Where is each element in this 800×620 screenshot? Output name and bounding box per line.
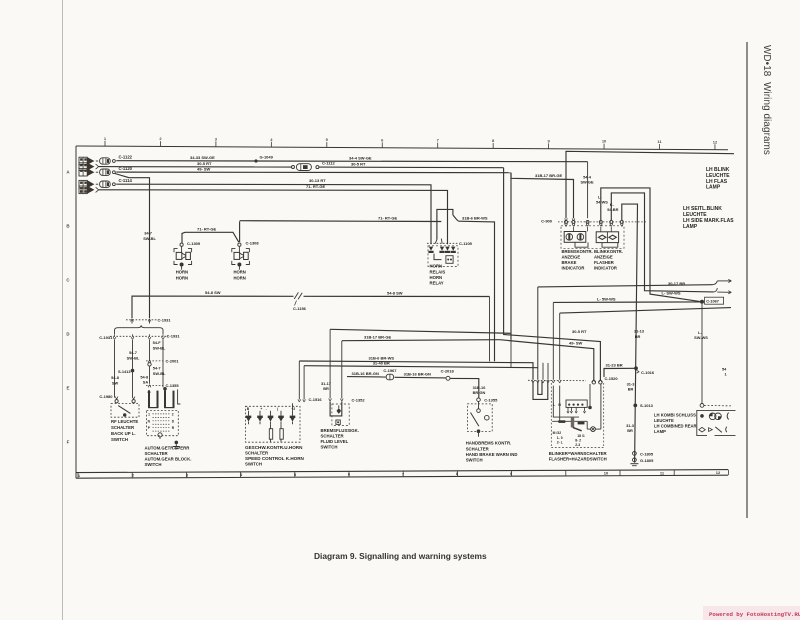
connector C-1931 lower row: [99, 334, 180, 340]
svg-text:SCHALTER: SCHALTER: [111, 425, 135, 430]
svg-text:AUTOM.GETR.SPERR: AUTOM.GETR.SPERR: [145, 445, 191, 450]
page divider rule: [746, 42, 748, 518]
svg-text:31B-17 BR-GE: 31B-17 BR-GE: [535, 173, 562, 178]
horn 1: [174, 246, 192, 280]
connector C-2018: [441, 369, 479, 398]
wire L- SW-WS down to rear lamp: [694, 304, 708, 404]
speed control and horn switch box: [246, 403, 301, 442]
svg-text:71- RT-GE: 71- RT-GE: [197, 227, 216, 232]
connector to rear lamp: [700, 404, 731, 408]
svg-text:BRAKE: BRAKE: [562, 260, 577, 265]
horn relay text label: [430, 264, 446, 286]
horn relay coil loop: [435, 209, 458, 243]
brake indicator text label: [562, 249, 593, 270]
svg-text:5: 5: [326, 137, 329, 142]
svg-text:INDICATOR: INDICATOR: [562, 265, 585, 270]
horn relay body: [428, 246, 458, 267]
fluid level switch: [330, 402, 349, 426]
svg-text:49- SW: 49- SW: [197, 166, 211, 171]
svg-text:D: D: [66, 332, 69, 337]
flasher switch left loops: [533, 381, 548, 399]
connector C-1520: [592, 376, 618, 384]
svg-text:C-1122: C-1122: [119, 155, 133, 160]
svg-text:+: +: [260, 407, 262, 411]
svg-text:SCHALTER: SCHALTER: [245, 450, 269, 455]
svg-text:SWITCH: SWITCH: [245, 462, 262, 467]
svg-text:BLINKER=WARNSCHALTER: BLINKER=WARNSCHALTER: [549, 451, 608, 456]
svg-text:RELAIS: RELAIS: [430, 269, 446, 274]
wire 31B-6 BR-WS lower run: [299, 355, 533, 379]
svg-text:9: 9: [510, 471, 513, 476]
svg-text:C-1931: C-1931: [167, 334, 181, 339]
in-line connector C-1156 break: [293, 292, 307, 311]
svg-text:RF LEUCHTE: RF LEUCHTE: [111, 419, 138, 424]
svg-text:LAMP: LAMP: [706, 185, 721, 191]
connector C-1516: [298, 361, 322, 402]
svg-text:2: 2: [159, 136, 162, 141]
svg-text:FLUID LEVEL: FLUID LEVEL: [321, 439, 349, 444]
wire 49- SW (row 3): [116, 166, 511, 172]
svg-text:34-7: 34-7: [144, 230, 152, 235]
svg-text:RELAY: RELAY: [430, 281, 444, 286]
bottom ruler bar: [76, 470, 728, 479]
svg-text:G-1805: G-1805: [640, 458, 654, 463]
svg-text:LEUCHTE: LEUCHTE: [654, 418, 674, 423]
svg-text:SWITCH: SWITCH: [321, 445, 338, 450]
wire 30-5 RT drop and run to flasher switch: [504, 168, 601, 380]
svg-text:BACK UP L.: BACK UP L.: [111, 431, 136, 436]
svg-text:FLASHER=HAZARDSWITCH: FLASHER=HAZARDSWITCH: [549, 457, 607, 462]
wire 31-40 BR run: [304, 360, 538, 367]
svg-text:-: -: [266, 407, 267, 411]
splice S-1013: [633, 403, 653, 408]
connector plug row B-2: [79, 186, 99, 194]
flasher indicator text label: [594, 249, 623, 270]
svg-text:C-1308: C-1308: [246, 241, 260, 246]
svg-text:8: 8: [492, 138, 495, 143]
svg-text:2-3: 2-3: [575, 443, 580, 447]
svg-text:6: 6: [348, 472, 351, 477]
watermark Powered by FotoHostingTV.RU: [703, 606, 800, 620]
svg-text:BR: BR: [635, 334, 641, 339]
svg-text:HORN: HORN: [430, 264, 443, 269]
svg-text:M /32: M /32: [553, 431, 562, 435]
svg-text:54-7: 54-7: [129, 350, 137, 355]
connector C-1355 handbrake: [477, 398, 498, 413]
svg-text:49- SW: 49- SW: [569, 341, 583, 346]
svg-text:B: B: [66, 224, 69, 229]
top ruler scale numbers 1-12: [104, 136, 718, 150]
wire 30-17 BR to rear lamp connectors: [538, 281, 713, 380]
wire 54 label at page edge: [722, 366, 728, 376]
back-up light switch: [111, 400, 139, 418]
svg-text:C-1105: C-1105: [459, 241, 473, 246]
svg-text:SW-BL: SW-BL: [153, 345, 166, 350]
LH side marker lamp text: [683, 206, 734, 230]
svg-text:+2: +2: [291, 407, 295, 411]
svg-text:SCHALTER: SCHALTER: [321, 433, 345, 438]
svg-text:30-13 RT: 30-13 RT: [309, 178, 326, 183]
connector C-1309: [180, 241, 201, 246]
svg-text:N: N: [148, 419, 151, 423]
svg-text:C-1355: C-1355: [166, 383, 180, 388]
svg-text:C: C: [66, 278, 70, 283]
svg-text:S-1413: S-1413: [118, 369, 131, 374]
svg-text:54-7: 54-7: [153, 366, 161, 371]
gear switch ground: [173, 441, 180, 449]
svg-text:C-900: C-900: [541, 218, 553, 223]
rear lamp text label: [654, 412, 697, 434]
wire 54-4 SW-GE drop: [580, 162, 594, 219]
svg-text:C-1067: C-1067: [706, 299, 719, 304]
handbrake switch text label: [466, 441, 518, 463]
svg-text:6: 6: [381, 137, 384, 142]
svg-text:C-1352: C-1352: [352, 397, 366, 402]
brake indicator lamps: [564, 232, 588, 248]
wire L- SW-WS loop from indicator: [601, 188, 700, 302]
svg-text:10: 10: [604, 471, 609, 476]
fluid level switch text label: [321, 428, 359, 450]
svg-text:BREMSFLUSSIGK.: BREMSFLUSSIGK.: [321, 428, 359, 433]
svg-text:C-1355: C-1355: [484, 398, 498, 403]
flasher switch pin row: [528, 380, 586, 383]
svg-text:C-1931: C-1931: [99, 335, 113, 340]
svg-text:7: 7: [437, 138, 440, 143]
svg-text:G-1049: G-1049: [260, 155, 274, 160]
wire 34-33 SW-GE / 34-4 SW-GE (row 1): [116, 155, 587, 162]
svg-text:BREMSKONTR.: BREMSKONTR.: [562, 249, 593, 254]
svg-text:SW-BL: SW-BL: [143, 236, 156, 241]
svg-text:C-1156: C-1156: [293, 306, 307, 311]
svg-text:54-8 SW: 54-8 SW: [205, 290, 221, 295]
row letters A-F on left margin: [66, 170, 70, 445]
wire 71- RT-GE horn feed: [240, 215, 442, 221]
automatic gear block switch contacts: [148, 389, 181, 407]
svg-text:ANZEIGE: ANZEIGE: [594, 254, 613, 259]
svg-text:2- L: 2- L: [557, 441, 563, 445]
connector C-1355 gear switch: [146, 383, 179, 388]
speed control switch text label: [245, 445, 305, 467]
connector C-1122 (battery feed plug, row A): [79, 155, 133, 165]
svg-text:SWITCH: SWITCH: [466, 458, 483, 463]
svg-text:C-1016: C-1016: [641, 370, 655, 375]
svg-text:LH KOMBI SCHLUSS: LH KOMBI SCHLUSS: [654, 412, 696, 417]
wire K- loop from indicator to brace: [611, 193, 713, 292]
svg-text:P: P: [148, 426, 151, 430]
svg-text:C-1931: C-1931: [158, 318, 172, 323]
svg-text:C-1520: C-1520: [605, 376, 619, 381]
connector C-1931 upper row: [126, 318, 171, 324]
svg-text:F: F: [67, 440, 70, 445]
diagram border frame: [76, 146, 728, 478]
wire to page edge right: [560, 308, 731, 380]
gear block switch position ladder: [147, 411, 179, 440]
flasher-hazard switch body: [551, 383, 603, 448]
wire 31-3 BR labels lower: [626, 423, 635, 433]
svg-text:HORN: HORN: [176, 270, 188, 275]
connector C-900: [541, 218, 647, 226]
svg-text:HANDBREMS KONTR.: HANDBREMS KONTR.: [466, 441, 512, 446]
svg-text:3: 3: [215, 136, 218, 141]
svg-text:INDICATOR: INDICATOR: [594, 265, 617, 270]
wire 31B-16 BR-GN label at drop: [473, 385, 487, 395]
svg-text:SPEED CONTROL K.HORN: SPEED CONTROL K.HORN: [245, 456, 305, 461]
wire 31-17 BR drop: [321, 329, 331, 401]
svg-text:12: 12: [713, 139, 718, 144]
svg-text:LAMP: LAMP: [683, 224, 698, 230]
brace split under C-1931: [115, 325, 164, 334]
wire 31B-16 BR-GN with connector C-1967: [347, 368, 446, 380]
svg-text:S-1013: S-1013: [640, 403, 654, 408]
svg-text:C-1967: C-1967: [383, 368, 397, 373]
svg-text:SW-WS: SW-WS: [694, 335, 708, 340]
svg-text:31-40 BR: 31-40 BR: [373, 360, 390, 365]
svg-text:7: 7: [402, 471, 405, 476]
feed wires into flasher switch pins: [511, 340, 548, 380]
connector C-1114: [79, 178, 132, 188]
wire L- 5W-WS to junction: [553, 296, 700, 379]
svg-text:L- 5W-WS: L- 5W-WS: [597, 296, 616, 301]
svg-text:(: (: [277, 407, 279, 411]
svg-text:A: A: [66, 170, 70, 175]
svg-text:ANZEIGE: ANZEIGE: [562, 254, 581, 259]
svg-text:AUTOM.GEAR BLOCK.: AUTOM.GEAR BLOCK.: [145, 457, 192, 462]
svg-text:30-17 BR: 30-17 BR: [668, 281, 685, 286]
connector plug row A-2: [79, 163, 99, 171]
svg-text:4: 4: [270, 137, 273, 142]
svg-text:C-1805: C-1805: [640, 451, 654, 456]
wire into gear switch: [163, 340, 167, 391]
svg-text:10: 10: [602, 139, 607, 144]
scan fold line at left: [62, 0, 63, 620]
connector C-1805: [633, 451, 654, 456]
svg-text:LH COMBINED REAR: LH COMBINED REAR: [654, 423, 697, 428]
splice and connector C-1016: [634, 366, 655, 375]
wire 31-13 BR label: [634, 329, 645, 339]
in-line connector C-1112: [292, 160, 336, 170]
svg-text:BR-GN: BR-GN: [473, 390, 486, 395]
svg-text:34-33 SW-GE: 34-33 SW-GE: [190, 155, 215, 160]
wire 54-7 SW-BL left branch: [111, 340, 120, 398]
svg-text:HORN: HORN: [234, 270, 246, 275]
LH combined rear lamp: [697, 410, 736, 435]
svg-text:54-WS: 54-WS: [596, 200, 608, 205]
caption Diagram 9: [314, 551, 487, 561]
svg-text:SCHALTER: SCHALTER: [145, 451, 169, 456]
svg-text:1: 1: [78, 473, 81, 478]
wire 30-5 RT continuation to drop: [319, 161, 504, 167]
svg-text:1- 0: 1- 0: [557, 436, 563, 440]
svg-text:SA: SA: [143, 379, 149, 384]
svg-text:C-2018: C-2018: [441, 369, 455, 374]
wire 54-7 SW-BL drop label: [143, 230, 156, 241]
svg-text:1: 1: [104, 136, 107, 141]
wire L- 54-WS label: [596, 194, 608, 204]
svg-text:3: 3: [186, 472, 189, 477]
svg-text:C-2001: C-2001: [166, 358, 180, 363]
svg-text:54-BR: 54-BR: [607, 207, 618, 212]
ground G-1805: [630, 458, 654, 466]
wire 31-3 BR labels upper: [627, 381, 636, 391]
svg-text:1: 1: [148, 412, 150, 416]
wire 31B-6 BR-WS from relay: [458, 216, 494, 362]
svg-text:BLINKKONTR.: BLINKKONTR.: [594, 249, 623, 254]
connector C-2001: [140, 358, 179, 384]
svg-text:30-5 RT: 30-5 RT: [572, 329, 587, 334]
svg-text:B: B: [247, 407, 250, 411]
svg-text:R: R: [172, 426, 175, 430]
svg-text:31B-16 BR-GN: 31B-16 BR-GN: [404, 372, 431, 377]
svg-text:31-23 BR: 31-23 BR: [606, 363, 623, 368]
svg-text:30-5 RT: 30-5 RT: [351, 161, 366, 166]
svg-text:1: 1: [725, 372, 728, 377]
svg-text:C-1516: C-1516: [309, 397, 323, 402]
connector C-1105 relay pins: [427, 241, 473, 253]
splice junction at C-1067: [700, 297, 724, 304]
svg-text:BR: BR: [323, 386, 329, 391]
svg-text:18 /1: 18 /1: [577, 434, 585, 438]
wire 30-5 RT (row 2): [99, 161, 292, 167]
svg-text:LAMP: LAMP: [654, 429, 666, 434]
wire K- 54-BR label: [607, 202, 618, 212]
svg-text:FLASHER: FLASHER: [594, 260, 614, 265]
svg-text:C-1309: C-1309: [187, 241, 201, 246]
svg-text:2: 2: [132, 473, 135, 478]
svg-text:71- RT-GE: 71- RT-GE: [378, 215, 397, 220]
svg-text:E: E: [67, 386, 70, 391]
svg-text:SCHALTER: SCHALTER: [466, 446, 490, 451]
svg-text:4: 4: [240, 472, 243, 477]
svg-text:31B-17 BR-GE: 31B-17 BR-GE: [364, 334, 391, 339]
svg-text:31B-16 BR-GN: 31B-16 BR-GN: [352, 371, 379, 376]
wire 31-17 BR upper run: [330, 329, 511, 333]
svg-text:54-8 SW: 54-8 SW: [387, 291, 403, 296]
wire 54-8 SW drop to flasher region: [489, 297, 491, 362]
wire 49- SW run to flasher switch: [500, 173, 594, 380]
indicator cluster box: [561, 226, 624, 249]
svg-text:34-4 SW-GE: 34-4 SW-GE: [349, 156, 372, 161]
LH flasher lamp text: [706, 167, 730, 191]
branch from C-1120 down to C-1931 tree: [115, 174, 150, 319]
vertical page header WD-18 Wiring diagrams: [744, 36, 778, 336]
wire 54 feed at top right edge: [565, 151, 734, 221]
svg-text:9: 9: [547, 138, 550, 143]
svg-text:BR: BR: [628, 387, 634, 392]
connector C-1120: [79, 166, 133, 176]
wire 54-8 SW horn/backup feed: [132, 290, 490, 318]
connector C-1308: [238, 241, 260, 247]
svg-text:SWITCH: SWITCH: [145, 462, 162, 467]
svg-text:C-1114: C-1114: [119, 178, 133, 183]
connector C-1980: [99, 394, 135, 399]
wire 71- RT-GE (row 5): [99, 184, 448, 244]
svg-text:11: 11: [657, 139, 662, 144]
handbrake warning switch: [467, 404, 492, 437]
svg-text:12: 12: [716, 470, 721, 475]
svg-text:D: D: [172, 419, 175, 423]
svg-text:BR: BR: [627, 428, 633, 433]
svg-text:HAND BRAKE WARN IND: HAND BRAKE WARN IND: [466, 452, 518, 457]
svg-text:HORN: HORN: [234, 275, 246, 280]
wire 31B-17 BR-GE lower run: [342, 334, 500, 340]
svg-text:SW-BL: SW-BL: [153, 371, 166, 376]
svg-text:5: 5: [294, 472, 297, 477]
svg-text:C-1112: C-1112: [322, 160, 335, 165]
svg-text:2: 2: [172, 412, 174, 416]
wire with splice S-1413: [118, 340, 140, 398]
svg-text:C-1980: C-1980: [99, 394, 113, 399]
svg-text:SW-BL: SW-BL: [127, 356, 140, 361]
connector C-1352 drop: [340, 341, 365, 402]
svg-text:8: 8: [456, 471, 459, 476]
splice G-1049: [254, 155, 273, 163]
svg-text:SWITCH: SWITCH: [111, 437, 128, 442]
svg-text:71- RT-GE: 71- RT-GE: [306, 184, 325, 189]
svg-text:SW: SW: [112, 380, 119, 385]
svg-text:31B-6 BR-WS: 31B-6 BR-WS: [462, 216, 488, 221]
svg-text:30-5 RT: 30-5 RT: [197, 161, 212, 166]
svg-text:HORN: HORN: [176, 275, 188, 280]
svg-text:54-F: 54-F: [153, 340, 162, 345]
wire 31-23 BR stub: [604, 363, 635, 377]
gear switch text label: [145, 445, 192, 467]
svg-text:11: 11: [660, 470, 665, 475]
wire 31-3 BR loop from indicator to ground chain: [622, 204, 638, 463]
wire 31B-17 BR-GE to brake indicator: [511, 173, 575, 221]
flasher indicator lamps: [596, 232, 618, 247]
fan-out brace to page edge: [713, 279, 732, 294]
horn bracket wire 71- RT-GE: [182, 221, 240, 243]
back-up switch text label: [111, 419, 138, 442]
wire 30-13 RT (row 4): [116, 178, 431, 244]
wire 54-7 SW-BL right branch to C-2001: [150, 340, 166, 361]
svg-text:HORN: HORN: [430, 275, 443, 280]
flasher-hazard switch text label: [549, 451, 608, 462]
horn 2: [232, 246, 250, 280]
svg-text:GESCHW.KONTR.U.HORN: GESCHW.KONTR.U.HORN: [245, 445, 303, 450]
